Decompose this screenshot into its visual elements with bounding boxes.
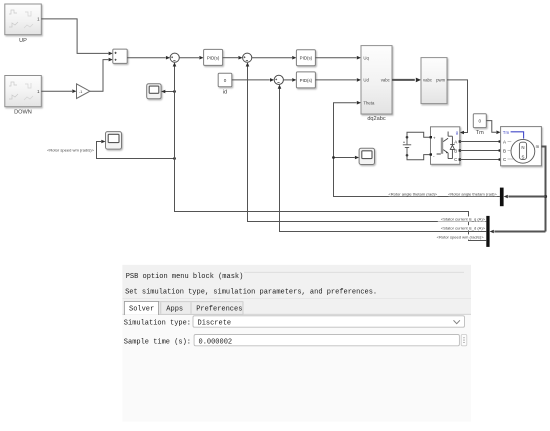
port marks [430, 136, 432, 138]
machine PMSM [501, 127, 542, 166]
wire PID3 to dq2abc Ud [315, 78, 361, 82]
block DOWN (subsystem) [5, 76, 42, 116]
svg-text:0: 0 [224, 78, 227, 83]
diode D1 [448, 136, 455, 158]
wire junction wm to Scope1 [161, 90, 176, 94]
wire B1 theta to dq2abc Theta [334, 101, 500, 197]
wire pwm to converter g [447, 80, 468, 134]
wire S3 to PID3 [283, 78, 296, 82]
wire m bus to bus selector 2 [490, 230, 546, 234]
dropdown Discrete [193, 316, 465, 328]
bus selector B2 (stator currents, speed) [486, 216, 489, 247]
svg-text:vabc: vabc [381, 78, 391, 83]
svg-text:B: B [503, 148, 506, 153]
svg-text:Simulation type:: Simulation type: [124, 320, 191, 328]
svg-text:-1: -1 [79, 90, 82, 94]
sum S3 (d-current loop) [274, 75, 283, 84]
svg-text:PID(s): PID(s) [300, 56, 313, 61]
svg-text:0.000002: 0.000002 [199, 338, 233, 346]
svg-text:dq2abc: dq2abc [367, 116, 386, 122]
PID controller U1 [204, 49, 223, 65]
wire junction theta to Scope3 [332, 156, 359, 160]
wire PID2 to dq2abc Uq [315, 56, 361, 60]
svg-text:pwm: pwm [436, 78, 445, 83]
sum S1 (speed loop) [170, 53, 179, 62]
kebab button [461, 335, 467, 346]
block vabc-to-pwm [421, 58, 447, 104]
wire UP to Add input 1 [41, 19, 113, 55]
wire B2 is_d feedback to sum S3 [278, 85, 487, 232]
wire Tm to machine [486, 121, 500, 135]
IGBT Q1 [441, 138, 443, 154]
label Stator current is_d [438, 225, 486, 230]
wire machine m down right side [541, 147, 547, 232]
svg-text:vabc: vabc [423, 78, 433, 83]
svg-text:<Rotor angle thetam (rad)>: <Rotor angle thetam (rad)> [388, 191, 437, 196]
wire vabc bus dq2abc to pwm block [392, 78, 421, 83]
svg-text:N: N [521, 145, 524, 150]
DC source E1 [403, 136, 411, 157]
tab strip [122, 301, 471, 315]
wire junction wm to Scope2 [97, 140, 176, 160]
wire B2 is_q feedback to sum S2 [246, 62, 487, 221]
wire converter A to machine A [460, 140, 501, 142]
svg-text:UP: UP [19, 38, 27, 44]
svg-text:Theta: Theta [363, 100, 375, 105]
svg-text:Tm: Tm [503, 130, 510, 135]
svg-text:A: A [503, 139, 506, 144]
svg-text:S: S [522, 154, 525, 159]
label Rotor speed wm [436, 234, 484, 239]
wire gain to Add input 2 [90, 58, 113, 91]
label Rotor angle thetam 2 [448, 191, 497, 196]
PID controller U3 [296, 72, 315, 88]
wire m to bus selector 1 [504, 195, 546, 199]
svg-text:id: id [223, 89, 227, 95]
dialog panel [122, 265, 471, 422]
wire converter C to machine C [460, 158, 501, 160]
svg-text:DOWN: DOWN [14, 110, 32, 116]
svg-text:A: A [454, 139, 457, 144]
wire PID1 to sum S2 [223, 56, 243, 60]
scope Scope2 (wm) [106, 132, 122, 150]
svg-text:Preferences: Preferences [196, 306, 242, 314]
svg-text:<Rotor speed wm (rad/s)>: <Rotor speed wm (rad/s)> [437, 235, 485, 240]
Add block (sum of UP/DOWN) [113, 49, 127, 63]
svg-text:<Rotor angle thetam (rad)>: <Rotor angle thetam (rad)> [448, 191, 497, 196]
svg-text:Sample time (s):: Sample time (s): [124, 339, 191, 347]
svg-text:<Stator current is_d (A)>: <Stator current is_d (A)> [441, 226, 486, 231]
scope Scope3 (theta) [359, 148, 374, 164]
wire DC- to converter [407, 155, 431, 160]
constant Tm (0) [473, 114, 486, 136]
svg-text:PSB option menu block (mask): PSB option menu block (mask) [126, 273, 244, 281]
converter (universal bridge) [430, 127, 461, 165]
block UP (subsystem) [5, 4, 42, 44]
svg-text:PID(s): PID(s) [300, 78, 313, 83]
gain G1 (-1) [77, 84, 90, 99]
svg-text:Solver: Solver [129, 306, 154, 314]
svg-text:Uq: Uq [363, 55, 369, 60]
svg-text:Apps: Apps [166, 306, 183, 314]
wire converter B to machine B [460, 149, 501, 151]
sum S2 (q-current loop) [243, 53, 252, 62]
label Rotor speed wm (near Scope2) [47, 147, 95, 152]
svg-text:Set simulation type, simulatio: Set simulation type, simulation paramete… [125, 289, 377, 297]
wire Add to sum S1 [127, 56, 170, 60]
svg-text:Tm: Tm [476, 130, 484, 136]
input sample time [194, 335, 459, 347]
svg-text:Discrete: Discrete [198, 320, 232, 328]
scope Scope1 (iq) [147, 84, 161, 99]
wire S2 to PID2 [252, 56, 297, 60]
svg-text:<Stator current is_q (A)>: <Stator current is_q (A)> [441, 217, 486, 222]
svg-text:0: 0 [479, 119, 482, 124]
svg-text:<Rotor speed wm (rad/s)>: <Rotor speed wm (rad/s)> [47, 148, 95, 153]
constant id (0) [218, 73, 232, 95]
svg-text:Ud: Ud [363, 78, 369, 83]
wire B2 wm feedback to sum S1 [173, 62, 487, 240]
block dq2abc [361, 46, 392, 122]
svg-text:m: m [536, 144, 540, 149]
svg-text:PID(s): PID(s) [207, 55, 220, 60]
wire DOWN to gain [41, 89, 76, 93]
wire id to sum S3 [232, 78, 274, 82]
wire S1 to PID1 [179, 56, 203, 60]
bus selector B1 (rotor angle) [500, 188, 504, 207]
label Stator current is_q [438, 216, 486, 221]
label Rotor angle thetam 1 [389, 191, 438, 196]
wire DC+ to converter [407, 132, 431, 137]
PID controller U2 [296, 50, 315, 66]
